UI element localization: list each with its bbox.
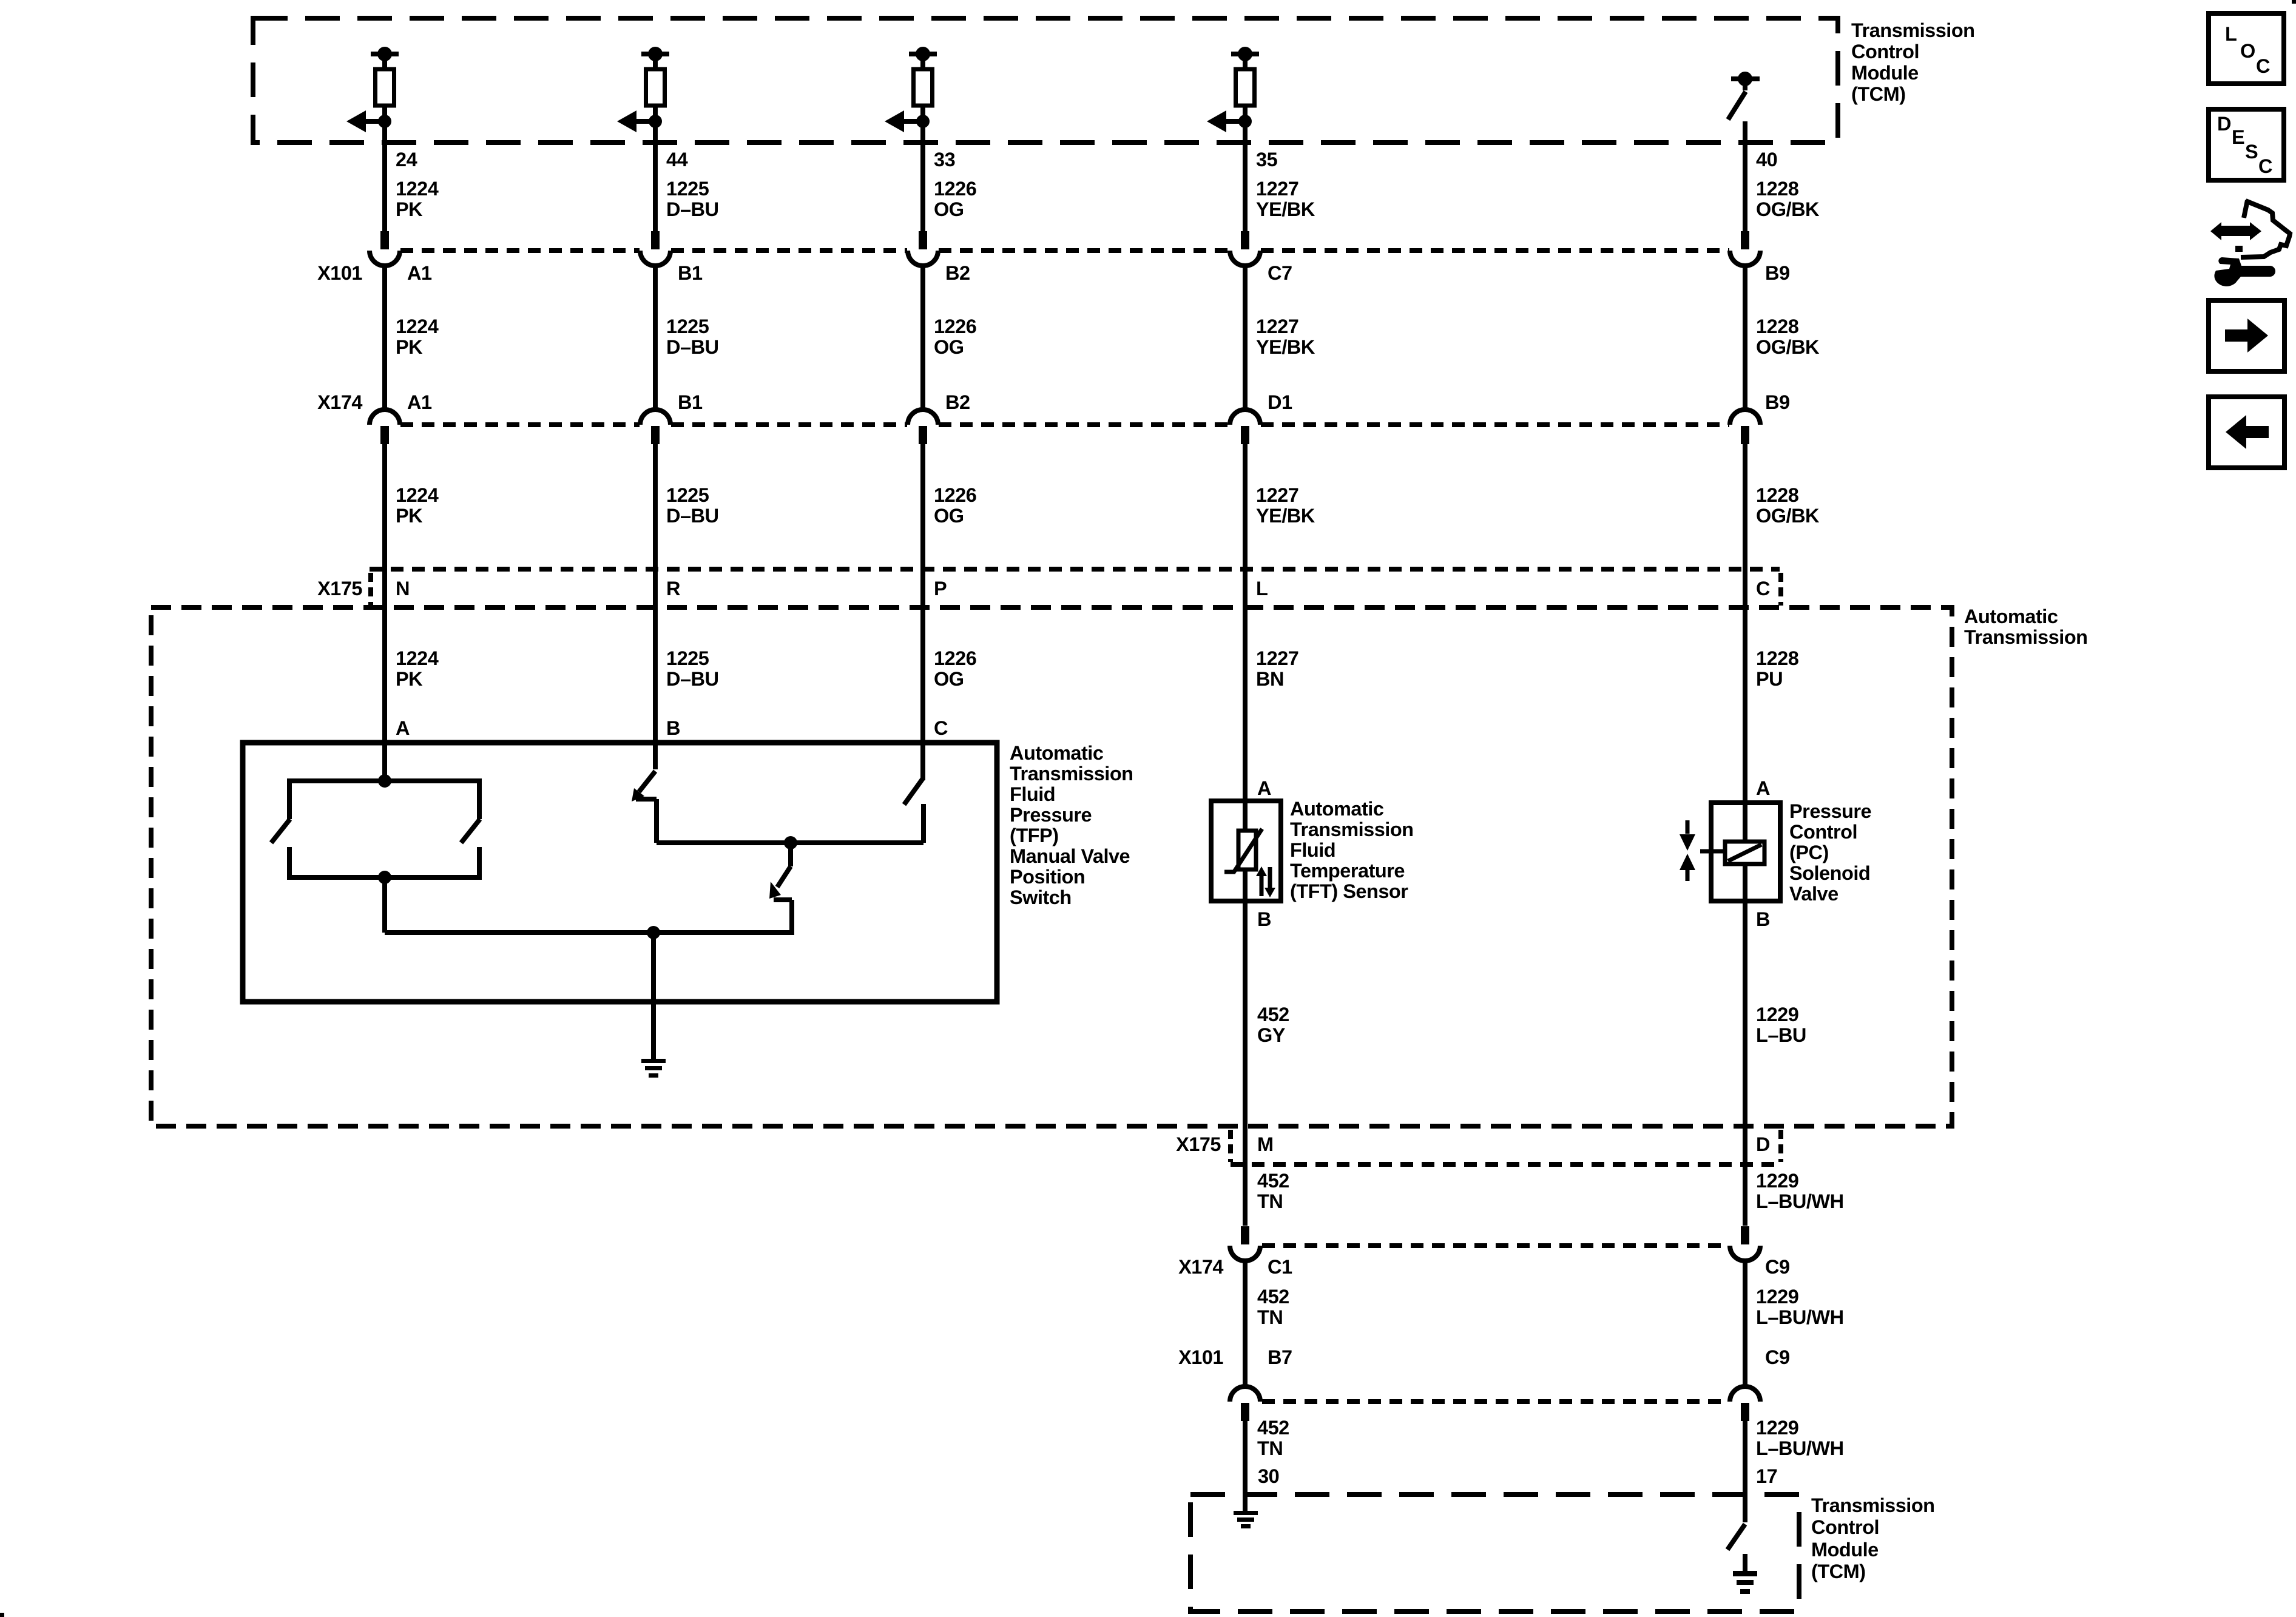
svg-text:OG: OG [934, 505, 964, 527]
svg-text:Module: Module [1851, 62, 1919, 84]
svg-text:X101: X101 [317, 262, 362, 284]
connector X174 dotted line [400, 422, 1729, 427]
wire label 1225 D–BU (X174 to X175) [666, 484, 719, 527]
wire column 5 X174 to transmission [1743, 444, 1747, 803]
icon DESC box [2209, 109, 2284, 180]
wire label 1227 YE/BK (TCM to X101) [1256, 178, 1315, 220]
wire label 1225 D–BU (TCM to X101) [666, 178, 719, 220]
svg-text:1226: 1226 [934, 484, 976, 506]
connector X175 bottom dotted line [1231, 1162, 1780, 1167]
svg-text:B: B [666, 717, 680, 739]
connector X175 pin N column 1 [396, 578, 410, 599]
TFP switch SW-A2 blade [461, 819, 480, 843]
svg-text:C9: C9 [1765, 1346, 1790, 1368]
svg-text:1227: 1227 [1256, 647, 1298, 669]
connector X101 terminal pin C7 column 4 [1230, 231, 1292, 410]
svg-text:452: 452 [1257, 1004, 1289, 1025]
label X175 [317, 578, 362, 599]
svg-text:B7: B7 [1268, 1346, 1292, 1368]
wire label 1227 BN (inside Automatic Transmission) [1256, 647, 1298, 690]
wire label 1224 PK (X101 to X174) [396, 316, 439, 358]
svg-text:Position: Position [1010, 866, 1085, 888]
TFP bottom rail [289, 875, 479, 880]
svg-text:Transmission: Transmission [1851, 19, 1975, 41]
svg-text:X175: X175 [1176, 1133, 1221, 1155]
svg-text:PU: PU [1756, 668, 1783, 690]
svg-text:Control: Control [1851, 41, 1919, 62]
PC pin B label [1756, 908, 1770, 930]
svg-text:33: 33 [934, 149, 955, 170]
svg-text:L: L [2225, 23, 2237, 45]
ground G3 (TCM pin 17) [1733, 1554, 1757, 1594]
svg-text:1226: 1226 [934, 178, 976, 200]
resistor R1 [376, 69, 394, 106]
svg-text:Pressure: Pressure [1789, 800, 1871, 822]
TFP switch SW-D blade with arrow [769, 866, 791, 899]
wire column 1 X174 to transmission [382, 444, 387, 784]
svg-text:OG/BK: OG/BK [1756, 336, 1820, 358]
connector X101 bottom dotted line [1262, 1399, 1728, 1404]
svg-text:Automatic: Automatic [1964, 606, 2058, 627]
svg-text:D: D [1756, 1133, 1770, 1155]
svg-text:D: D [2217, 113, 2231, 135]
svg-text:L–BU/WH: L–BU/WH [1756, 1437, 1844, 1459]
svg-text:E: E [2232, 126, 2244, 148]
svg-text:TN: TN [1257, 1437, 1283, 1459]
svg-text:D–BU: D–BU [666, 668, 719, 690]
TFP switch SW-D upper stub [788, 843, 793, 866]
svg-text:OG: OG [934, 668, 964, 690]
resistor R2 pull-up supply bar with node [641, 47, 669, 71]
PC solenoid stub [1700, 849, 1725, 854]
wire column 4 X174 to transmission [1243, 444, 1248, 803]
svg-text:Control: Control [1811, 1516, 1879, 1538]
svg-text:1226: 1226 [934, 316, 976, 337]
svg-text:24: 24 [396, 149, 417, 170]
resistor R1 pull-up supply bar with node [371, 47, 399, 71]
svg-text:Temperature: Temperature [1290, 860, 1405, 882]
TFP pin C label [934, 717, 948, 739]
wire label 1225 D–BU (X101 to X174) [666, 316, 719, 358]
wire label 1228 OG/BK (X174 to X175) [1756, 484, 1820, 527]
svg-text:S: S [2245, 141, 2258, 163]
connector X101 terminal pin C9 bottom [1730, 1346, 1790, 1522]
svg-text:BN: BN [1256, 668, 1284, 690]
PC solenoid coil [1725, 842, 1764, 864]
label: Transmission Control Module (TCM) top [1851, 19, 1975, 105]
connector X175 bottom bracket right [1778, 1130, 1783, 1162]
svg-text:TN: TN [1257, 1190, 1283, 1212]
TFP node bottom [378, 871, 391, 884]
connector X175 dotted line [370, 567, 1780, 572]
svg-text:44: 44 [666, 149, 688, 170]
connector X175 pin D [1756, 1133, 1770, 1155]
svg-text:C7: C7 [1268, 262, 1292, 284]
label X175 bottom [1176, 1133, 1221, 1155]
svg-text:Automatic: Automatic [1010, 742, 1104, 764]
svg-text:B2: B2 [945, 391, 970, 413]
svg-text:40: 40 [1756, 149, 1777, 170]
switch S2 discrete driver in TCM (pin 17) [1727, 1524, 1745, 1550]
pin 30 label [1258, 1465, 1279, 1487]
TFP pin B label [666, 717, 680, 739]
svg-text:Valve: Valve [1789, 883, 1838, 905]
icon arrow right box [2209, 300, 2284, 371]
TFT sensor box [1211, 801, 1281, 901]
signal arrow into TCM at column 3 [885, 110, 923, 132]
resistor R3 pull-up supply bar with node [909, 47, 937, 71]
resistor R2 [646, 69, 665, 106]
wire label 1228 OG/BK (TCM to X101) [1756, 178, 1820, 220]
svg-text:C: C [2258, 155, 2272, 177]
pin 17 label [1756, 1465, 1777, 1487]
svg-text:1228: 1228 [1756, 484, 1799, 506]
svg-text:452: 452 [1257, 1170, 1289, 1192]
TFP switch SW-C contact [921, 804, 926, 843]
wire label 1227 YE/BK (X101 to X174) [1256, 316, 1315, 358]
svg-text:A: A [1756, 777, 1770, 799]
connector X175 bracket left [368, 573, 373, 606]
icon arrow left box [2209, 397, 2284, 468]
TFP switch SW-A1 blade [271, 819, 290, 843]
connector X101 terminal pin B7 [1230, 1346, 1292, 1511]
svg-text:D–BU: D–BU [666, 336, 719, 358]
svg-text:1229: 1229 [1756, 1004, 1798, 1025]
svg-text:1225: 1225 [666, 316, 709, 337]
label: Automatic Transmission [1964, 606, 2088, 648]
connector X175 pin L column 4 [1256, 578, 1268, 599]
TFP switch SW-B contact [636, 799, 657, 843]
svg-text:OG: OG [934, 336, 964, 358]
connector X175 pin R column 2 [666, 578, 680, 599]
svg-text:L–BU/WH: L–BU/WH [1756, 1190, 1844, 1212]
wire inside PC solenoid [1743, 803, 1747, 901]
svg-text:B: B [1257, 908, 1271, 930]
pin 35 label [1256, 149, 1278, 170]
wire label 1224 PK (TCM to X101) [396, 178, 439, 220]
svg-text:Control: Control [1789, 821, 1857, 843]
pin 44 label [666, 149, 688, 170]
wire below resistor R3 [920, 106, 925, 231]
svg-text:1224: 1224 [396, 178, 439, 200]
connector X174 terminal pin C9 [1730, 1226, 1790, 1386]
PC pin A label [1756, 777, 1770, 799]
svg-text:B: B [1756, 908, 1770, 930]
svg-text:C: C [1756, 578, 1770, 599]
svg-text:GY: GY [1257, 1024, 1286, 1046]
wire TFT B down [1243, 901, 1248, 1226]
connector X174 terminal pin B2 column 3 [908, 391, 970, 444]
connector X175 pin M [1257, 1133, 1274, 1155]
svg-text:L–BU/WH: L–BU/WH [1756, 1306, 1844, 1328]
wire below resistor R1 [382, 106, 387, 231]
svg-text:A1: A1 [407, 391, 432, 413]
svg-text:(TCM): (TCM) [1811, 1561, 1866, 1582]
svg-text:B1: B1 [678, 262, 703, 284]
svg-text:1224: 1224 [396, 647, 439, 669]
connector X174 terminal pin D1 column 4 [1230, 391, 1292, 444]
label: Transmission Control Module (TCM) bottom [1811, 1494, 1935, 1582]
TFP ground node [647, 926, 660, 939]
pin 24 label [396, 149, 417, 170]
node below resistor R3 [916, 115, 930, 128]
svg-text:P: P [934, 578, 947, 599]
svg-text:Module: Module [1811, 1539, 1879, 1561]
TFP switch SW-C blade [904, 778, 923, 805]
TFT thermistor symbol [1224, 829, 1262, 873]
ground G2 (TCM pin 30) [1234, 1511, 1258, 1528]
node below resistor R2 [649, 115, 662, 128]
svg-text:OG/BK: OG/BK [1756, 505, 1820, 527]
svg-text:Automatic: Automatic [1290, 798, 1384, 820]
switch S1 discrete output driver in TCM (pin 40) [1728, 72, 1760, 231]
svg-text:X175: X175 [317, 578, 362, 599]
TCM (Transmission Control Module) dashed box bottom [1190, 1494, 1799, 1612]
svg-text:OG: OG [934, 198, 964, 220]
TFP switch SW-D contact [774, 900, 792, 935]
svg-text:Pressure: Pressure [1010, 804, 1092, 826]
svg-text:B2: B2 [945, 262, 970, 284]
svg-text:TN: TN [1257, 1306, 1283, 1328]
wire label 452 GY (TFT B to X175) [1257, 1004, 1289, 1046]
wire TFP to ground [651, 933, 656, 1059]
wire column 3 X174 to transmission [920, 444, 925, 780]
label: Automatic Transmission Fluid Pressure (TFP) Manual Valve Position Switch [1010, 742, 1133, 908]
PC solenoid box [1711, 803, 1780, 901]
svg-text:Manual Valve: Manual Valve [1010, 845, 1130, 867]
wire label 1228 PU (inside Automatic Transmission) [1756, 647, 1799, 690]
svg-text:30: 30 [1258, 1465, 1279, 1487]
svg-text:Fluid: Fluid [1010, 783, 1055, 805]
wire label 452 TN (X101 to TCM pin 30) [1257, 1417, 1289, 1459]
svg-text:35: 35 [1256, 149, 1278, 170]
svg-text:1227: 1227 [1256, 484, 1298, 506]
svg-text:A: A [1257, 777, 1271, 799]
wire column 2 X174 to transmission [653, 444, 658, 769]
TFP pin A label [396, 717, 410, 739]
svg-text:17: 17 [1756, 1465, 1777, 1487]
svg-text:452: 452 [1257, 1286, 1289, 1308]
signal arrow into TCM at column 4 [1207, 110, 1245, 132]
TFP mid rail [657, 840, 923, 845]
label X101 bottom [1178, 1346, 1223, 1368]
svg-text:1228: 1228 [1756, 316, 1799, 337]
resistor R3 [914, 69, 933, 106]
icon adjustable hand with wrench [2210, 200, 2290, 286]
TFP switch SW-A2 right contact lower [477, 847, 482, 880]
svg-text:(PC): (PC) [1789, 842, 1829, 863]
connector X175 pin C column 5 [1756, 578, 1770, 599]
resistor R4 pull-up supply bar with node [1231, 47, 1259, 71]
svg-text:B9: B9 [1765, 262, 1790, 284]
svg-text:1225: 1225 [666, 647, 709, 669]
TFP node mid [784, 836, 797, 849]
svg-text:M: M [1257, 1133, 1274, 1155]
TFT up-down arrows [1256, 866, 1275, 897]
svg-text:N: N [396, 578, 410, 599]
svg-text:L: L [1256, 578, 1268, 599]
wire label 1226 OG (X101 to X174) [934, 316, 976, 358]
svg-text:OG/BK: OG/BK [1756, 198, 1820, 220]
connector X174 terminal pin B9 column 5 [1730, 391, 1790, 444]
wire label 1227 YE/BK (X174 to X175) [1256, 484, 1315, 527]
ground G1 (TFP switch) [641, 1059, 666, 1078]
TFP switch SW-B blade with arrow [632, 771, 655, 802]
svg-text:C: C [934, 717, 948, 739]
svg-text:X101: X101 [1178, 1346, 1223, 1368]
label X174 bottom [1178, 1256, 1223, 1278]
label X101 [317, 262, 362, 284]
PC valve arrows [1680, 820, 1695, 881]
svg-text:YE/BK: YE/BK [1256, 505, 1315, 527]
TFP node A top [378, 774, 391, 788]
TFP wire from bottom rail down [382, 877, 387, 933]
svg-text:YE/BK: YE/BK [1256, 336, 1315, 358]
TCM (Transmission Control Module) dashed box top [253, 18, 1838, 143]
svg-text:(TCM): (TCM) [1851, 83, 1906, 105]
svg-text:A1: A1 [407, 262, 432, 284]
icon LOC box [2209, 13, 2284, 84]
svg-text:Solenoid: Solenoid [1789, 862, 1870, 884]
svg-text:Transmission: Transmission [1964, 626, 2088, 648]
svg-text:D–BU: D–BU [666, 198, 719, 220]
connector X101 terminal pin B2 column 3 [908, 231, 970, 410]
svg-text:D1: D1 [1268, 391, 1292, 413]
svg-text:1228: 1228 [1756, 178, 1799, 200]
svg-text:Transmission: Transmission [1010, 763, 1133, 785]
svg-text:Switch: Switch [1010, 886, 1072, 908]
pin 40 label [1756, 149, 1777, 170]
Automatic Transmission dashed box [151, 607, 1952, 1126]
pin 33 label [934, 149, 955, 170]
svg-text:PK: PK [396, 198, 423, 220]
svg-text:A: A [396, 717, 410, 739]
connector X101 dotted line [400, 248, 1729, 253]
wire label 1225 D–BU (inside Automatic Transmission) [666, 647, 719, 690]
wire label 1229 L-BU/WH (X101 to TCM pin 17) [1756, 1417, 1844, 1459]
svg-text:C1: C1 [1268, 1256, 1292, 1278]
svg-text:L–BU: L–BU [1756, 1024, 1806, 1046]
signal arrow into TCM at column 2 [617, 110, 655, 132]
TFP switch SW-A1 left contact lower [287, 847, 292, 880]
TFP Manual Valve Position Switch box [243, 743, 997, 1002]
wire label 1226 OG (TCM to X101) [934, 178, 976, 220]
wire below resistor R2 [653, 106, 658, 231]
svg-text:X174: X174 [317, 391, 362, 413]
svg-text:1227: 1227 [1256, 316, 1298, 337]
wire label 452 TN (X175 to X174) [1257, 1170, 1289, 1212]
svg-text:B9: B9 [1765, 391, 1790, 413]
wire PC B down [1743, 901, 1747, 1226]
svg-text:1224: 1224 [396, 484, 439, 506]
TFP wire bottom horizontal [385, 930, 792, 935]
svg-text:1229: 1229 [1756, 1286, 1798, 1308]
TFP top rail [289, 778, 479, 783]
svg-text:1224: 1224 [396, 316, 439, 337]
svg-text:1228: 1228 [1756, 647, 1799, 669]
svg-text:452: 452 [1257, 1417, 1289, 1439]
svg-text:1226: 1226 [934, 647, 976, 669]
wire label 452 TN (X174 to X101) [1257, 1286, 1289, 1328]
svg-text:PK: PK [396, 336, 423, 358]
TFP switch SW-A2 right contact upper [477, 778, 482, 819]
connector X175 bottom bracket left [1228, 1130, 1233, 1162]
label: Automatic Transmission Fluid Temperature (TFT) Sensor [1290, 798, 1414, 902]
node below resistor R4 [1238, 115, 1252, 128]
connector X174 bottom dotted line [1262, 1243, 1728, 1248]
TFT pin B label [1257, 908, 1271, 930]
TFP switch SW-A1 left contact upper [287, 778, 292, 819]
connector X175 bracket right [1778, 573, 1783, 606]
wire below resistor R4 [1243, 106, 1248, 231]
label: Pressure Control (PC) Solenoid Valve [1789, 800, 1871, 905]
svg-text:Fluid: Fluid [1290, 839, 1335, 861]
connector X101 terminal pin B1 column 2 [640, 231, 703, 410]
connector X174 terminal pin C1 [1230, 1226, 1292, 1386]
wire label 1224 PK (inside Automatic Transmission) [396, 647, 439, 690]
svg-text:O: O [2240, 40, 2255, 62]
svg-text:(TFP): (TFP) [1010, 825, 1059, 846]
svg-text:1229: 1229 [1756, 1417, 1798, 1439]
connector X174 terminal pin A1 column 1 [370, 391, 432, 444]
wire label 1226 OG (inside Automatic Transmission) [934, 647, 976, 690]
connector X174 terminal pin B1 column 2 [640, 391, 703, 444]
svg-text:1227: 1227 [1256, 178, 1298, 200]
TFT pin A label [1257, 777, 1271, 799]
wire label 1229 L-BU (PC B to X175) [1756, 1004, 1806, 1046]
svg-text:B1: B1 [678, 391, 703, 413]
svg-text:YE/BK: YE/BK [1256, 198, 1315, 220]
connector X101 terminal pin B9 column 5 [1730, 231, 1790, 410]
svg-text:D–BU: D–BU [666, 505, 719, 527]
wire label 1224 PK (X174 to X175) [396, 484, 439, 527]
resistor R4 [1236, 69, 1255, 106]
svg-text:C: C [2256, 55, 2270, 77]
wire label 1228 OG/BK (X101 to X174) [1756, 316, 1820, 358]
svg-text:R: R [666, 578, 680, 599]
wire label 1229 L-BU/WH (X175 to X174) [1756, 1170, 1844, 1212]
svg-text:(TFT) Sensor: (TFT) Sensor [1290, 880, 1408, 902]
label X174 [317, 391, 362, 413]
svg-text:Transmission: Transmission [1811, 1494, 1935, 1516]
connector X175 pin P column 3 [934, 578, 947, 599]
page corner mark bottom left [0, 1613, 4, 1617]
wire label 1229 L-BU/WH (X174 to X101) [1756, 1286, 1844, 1328]
connector X101 terminal pin A1 column 1 [370, 231, 432, 410]
svg-text:Transmission: Transmission [1290, 819, 1414, 840]
signal arrow into TCM at column 1 [346, 110, 385, 132]
svg-text:1229: 1229 [1756, 1170, 1798, 1192]
page corner mark top right [2292, 0, 2296, 4]
svg-text:PK: PK [396, 505, 423, 527]
svg-text:C9: C9 [1765, 1256, 1790, 1278]
wire inside TFT sensor [1243, 801, 1248, 901]
svg-text:1225: 1225 [666, 178, 709, 200]
svg-text:PK: PK [396, 668, 423, 690]
svg-text:1225: 1225 [666, 484, 709, 506]
node below resistor R1 [378, 115, 391, 128]
wire label 1226 OG (X174 to X175) [934, 484, 976, 527]
svg-text:X174: X174 [1178, 1256, 1223, 1278]
